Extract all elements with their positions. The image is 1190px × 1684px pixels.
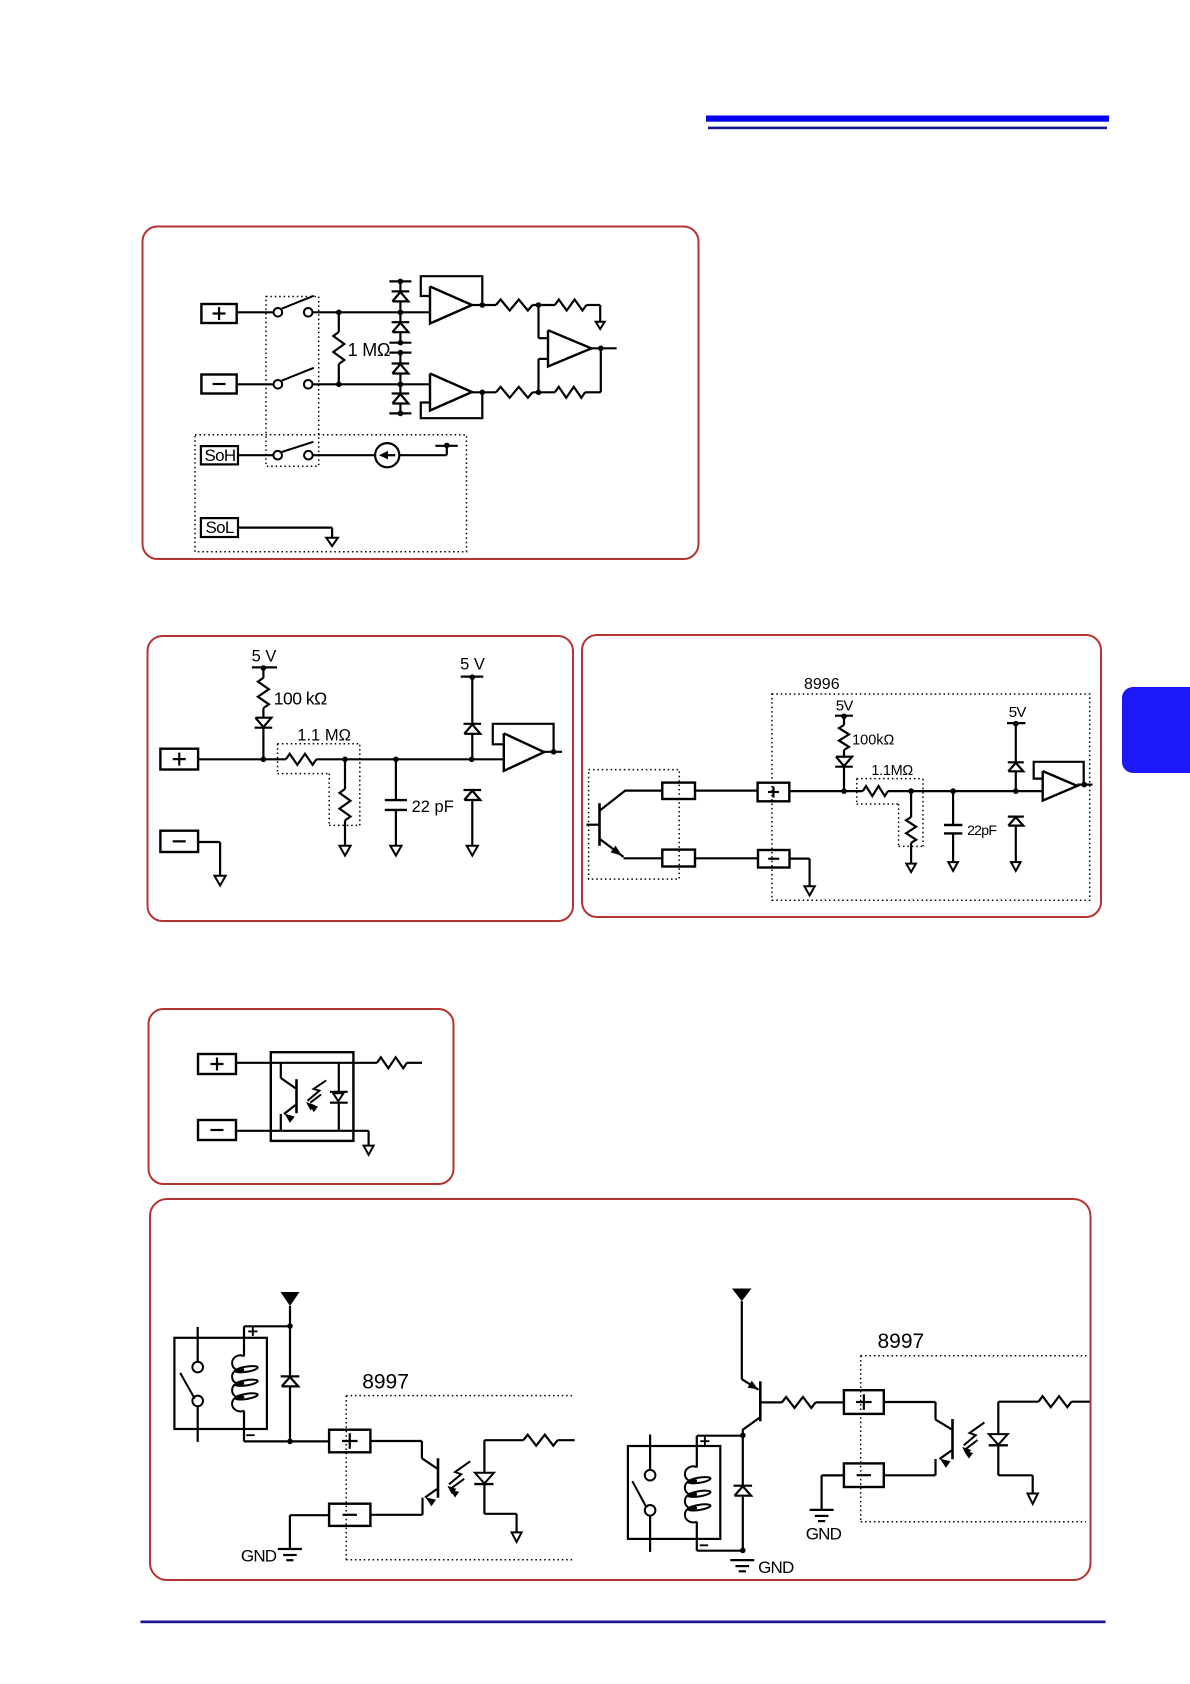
svg-text:1 MΩ: 1 MΩ [348,340,391,360]
svg-text:GND: GND [758,1558,794,1577]
svg-text:GND: GND [241,1546,277,1565]
svg-text:SoL: SoL [206,518,234,537]
svg-text:1.1MΩ: 1.1MΩ [871,763,913,779]
svg-text:5V: 5V [1009,704,1027,721]
svg-text:5 V: 5 V [460,656,485,674]
svg-text:8997: 8997 [362,1371,409,1394]
svg-text:1.1 MΩ: 1.1 MΩ [297,727,351,745]
svg-text:SoH: SoH [205,446,236,465]
svg-text:8997: 8997 [878,1330,925,1353]
svg-text:8996: 8996 [804,676,840,693]
svg-text:100kΩ: 100kΩ [852,733,894,749]
svg-text:22 pF: 22 pF [412,798,454,816]
svg-text:100 kΩ: 100 kΩ [274,689,327,709]
svg-text:5V: 5V [836,698,854,715]
svg-text:GND: GND [806,1525,842,1544]
svg-text:5 V: 5 V [252,648,277,666]
svg-text:22pF: 22pF [967,822,996,838]
